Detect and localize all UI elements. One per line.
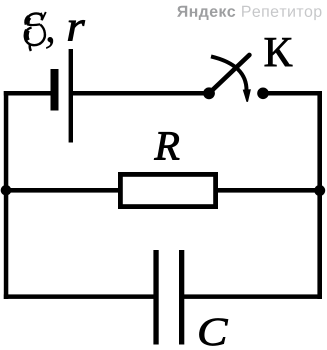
node junction right bbox=[314, 185, 325, 196]
label C (capacitor) bbox=[200, 319, 228, 346]
wire right vertical bbox=[317, 91, 322, 299]
wire top segment from switch to right wire bbox=[263, 91, 322, 96]
switch arrowhead bbox=[243, 89, 251, 102]
capacitor C left plate bbox=[153, 250, 158, 345]
switch K left contact node bbox=[203, 87, 215, 99]
wire bottom right segment bbox=[182, 294, 322, 299]
wire bottom left segment bbox=[4, 294, 156, 299]
node junction left bbox=[1, 185, 12, 196]
wire middle left segment bbox=[4, 188, 120, 193]
label K (switch) bbox=[265, 38, 293, 66]
label R (resistor) bbox=[154, 132, 179, 159]
battery cell E,r : thin long plate bbox=[69, 49, 73, 143]
wire left vertical bbox=[4, 91, 9, 299]
switch K right contact node bbox=[257, 88, 269, 100]
label EMF script-E bbox=[25, 12, 46, 51]
label comma after EMF bbox=[46, 37, 53, 49]
resistor R box bbox=[120, 174, 215, 206]
battery cell E,r : thick short plate bbox=[51, 69, 59, 111]
wire top segment from battery to switch bbox=[71, 91, 209, 96]
wire top segment from left wire to battery bbox=[4, 91, 52, 96]
switch K lever bbox=[209, 55, 249, 93]
wire middle right segment bbox=[216, 188, 322, 193]
switch K closing-direction arc arrow bbox=[211, 56, 247, 91]
label r (internal resistance) bbox=[68, 20, 85, 40]
capacitor C right plate bbox=[179, 250, 184, 345]
watermark Яндекс Репетитор bbox=[177, 6, 235, 20]
